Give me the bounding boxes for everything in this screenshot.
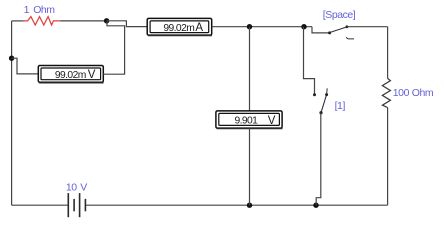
resistor R1 <box>24 17 61 25</box>
wire node B down to voltmeter V2 <box>249 27 251 111</box>
wire node A to ammeter <box>107 21 148 27</box>
voltmeter U3 <box>216 111 283 129</box>
switch S1 [Space] <box>312 9 356 39</box>
resistor R2 <box>382 78 390 107</box>
wire left vertical <box>11 21 13 205</box>
node F junction dot <box>9 56 14 61</box>
svg-text:100Ohm: 100Ohm <box>393 87 434 99</box>
svg-text:1Ohm: 1Ohm <box>24 4 56 16</box>
wire voltmeter V2 to node D <box>249 128 251 205</box>
wire node F to voltmeter V1 <box>12 58 39 74</box>
switch S2 [1] <box>304 27 346 115</box>
node D junction dot <box>247 203 252 208</box>
svg-text:99.02m: 99.02m <box>55 70 86 81</box>
wire bottom right segment <box>85 204 387 206</box>
svg-text:99.02m: 99.02m <box>163 23 194 34</box>
wire right vertical bottom <box>387 108 389 206</box>
svg-text:V: V <box>88 69 96 81</box>
node E junction dot <box>313 203 318 208</box>
svg-text:9.901: 9.901 <box>235 116 259 127</box>
wire ammeter to node C <box>212 26 312 28</box>
svg-text:A: A <box>195 22 203 34</box>
svg-text:[Space]: [Space] <box>323 9 356 21</box>
node B junction dot <box>247 24 252 29</box>
battery B1 <box>68 193 85 217</box>
svg-text:V: V <box>268 115 276 127</box>
node A junction dot <box>104 18 109 23</box>
wire S1 to right corner <box>347 26 388 28</box>
ammeter U1 <box>147 18 212 35</box>
svg-text:10V: 10V <box>66 182 87 194</box>
wire voltmeter V1 to node A <box>103 21 124 74</box>
node C junction dot <box>301 24 306 29</box>
wire top-left horizontal <box>12 20 24 22</box>
wire right vertical top <box>387 27 389 79</box>
svg-text:[1]: [1] <box>335 100 346 112</box>
wire R1 to node A <box>61 20 107 22</box>
voltmeter U2 <box>38 66 103 84</box>
wire bottom left segment <box>12 204 69 206</box>
wire S2 to node E <box>316 113 321 206</box>
